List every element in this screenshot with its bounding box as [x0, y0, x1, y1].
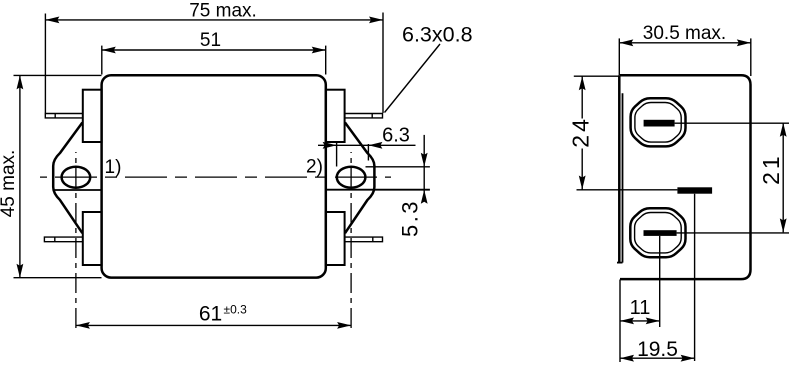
svg-text:51: 51 — [200, 30, 221, 51]
lower-right faston tab — [345, 237, 383, 242]
lower-right terminal block — [326, 212, 345, 265]
dimension 45 max. — [0, 75, 101, 277]
ground tab vertical extension — [694, 194, 696, 361]
svg-text:61: 61 — [199, 303, 222, 326]
dimension 24 — [568, 76, 620, 189]
horizontal centerline — [40, 176, 391, 178]
svg-text:6.3: 6.3 — [382, 125, 410, 147]
lower slot vertical extension — [659, 236, 661, 327]
upper terminal outer — [631, 98, 686, 146]
svg-text:5.3: 5.3 — [398, 199, 423, 237]
left mounting hole — [62, 167, 91, 188]
flange plate bottom edge — [617, 262, 623, 264]
upper-left terminal block — [83, 90, 102, 142]
upper slot extension line — [675, 122, 789, 124]
dimension 30.5 max. — [619, 23, 751, 76]
right mounting hole — [337, 167, 366, 188]
dimension 61 +-0.3 — [76, 303, 351, 329]
svg-text:1): 1) — [105, 157, 122, 178]
svg-text:6.3x0.8: 6.3x0.8 — [402, 23, 473, 47]
flange plate front face — [618, 75, 621, 262]
lower-left terminal block — [83, 212, 102, 265]
svg-text:30.5 max.: 30.5 max. — [643, 23, 726, 44]
dimension 51 — [102, 30, 326, 75]
upper-right faston tab — [345, 114, 383, 118]
svg-text:19.5: 19.5 — [637, 338, 678, 361]
left flange fold line — [55, 189, 102, 191]
lower terminal inner — [635, 213, 682, 253]
right flange fold line / 5.3 bottom extension — [326, 189, 430, 191]
svg-text:2): 2) — [306, 157, 323, 178]
svg-text:75 max.: 75 max. — [189, 1, 257, 22]
svg-text:24: 24 — [568, 116, 594, 148]
right hole vertical centerline — [350, 152, 352, 331]
filter body outline — [102, 75, 326, 277]
dimension 75 max. — [45, 1, 383, 114]
lower terminal slot bar — [644, 230, 677, 236]
left mounting flange — [53, 123, 82, 234]
dimension 19.5 — [620, 338, 695, 362]
upper-right terminal block — [326, 90, 345, 142]
svg-text:±0.3: ±0.3 — [224, 303, 248, 317]
label 6.3x0.8 with leader — [385, 23, 473, 113]
side body outline — [620, 75, 751, 279]
left hole vertical centerline — [75, 152, 77, 331]
dimension 6.3 (slot width) — [318, 125, 416, 167]
dimension 21 — [758, 123, 787, 233]
upper terminal inner — [635, 103, 681, 143]
lower terminal outer — [630, 208, 685, 257]
lower-left faston tab — [44, 237, 82, 242]
svg-text:45 max.: 45 max. — [0, 150, 19, 218]
upper-left faston tab — [45, 114, 83, 118]
ground tab bar — [677, 187, 712, 193]
lower slot extension line — [677, 232, 789, 234]
svg-text:21: 21 — [758, 153, 784, 185]
flange plate back face — [622, 93, 624, 262]
dimension 5.3 — [366, 135, 430, 237]
upper terminal slot bar — [644, 120, 675, 127]
ground tab extension line left — [577, 189, 678, 191]
right mounting flange — [345, 123, 374, 234]
svg-text:11: 11 — [630, 297, 651, 319]
dimension 11 — [620, 280, 660, 363]
